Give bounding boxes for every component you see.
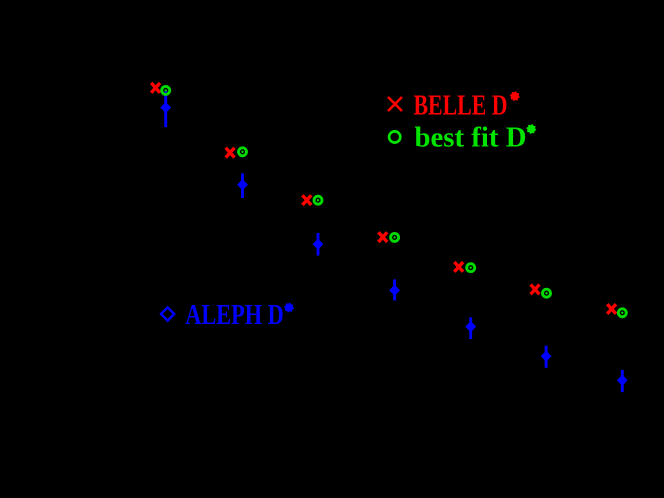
svg-text:ALEPH D: ALEPH D <box>185 300 283 331</box>
svg-text:best fit D: best fit D <box>415 123 527 154</box>
svg-text:BELLE D: BELLE D <box>414 90 508 121</box>
